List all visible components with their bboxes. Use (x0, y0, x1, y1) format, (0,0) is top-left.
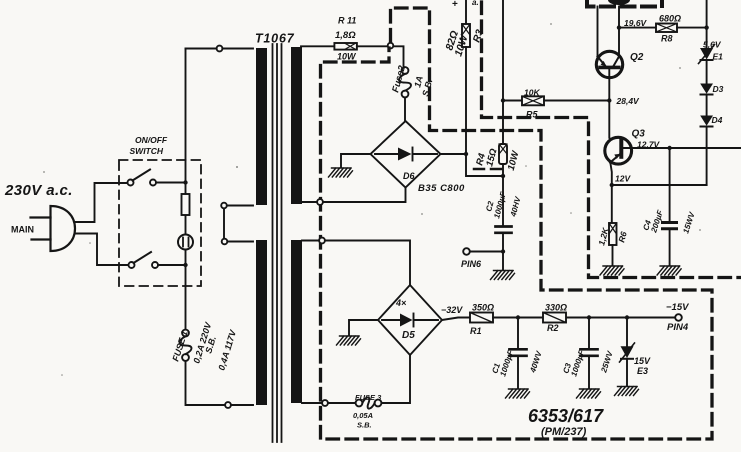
svg-text:R5: R5 (526, 110, 538, 120)
ground (bridge D6) (329, 168, 353, 177)
diode D4 (700, 116, 713, 127)
resistor R6 (609, 223, 617, 245)
svg-text:−15V: −15V (666, 302, 689, 313)
junction R5 tap (501, 98, 505, 102)
ground (R6) (600, 266, 624, 275)
resistor R3 (462, 24, 470, 47)
resistor R4 line top (502, 0, 504, 144)
wire D6 left to ground (341, 154, 371, 167)
transformer T1067 windings (256, 47, 302, 405)
junction R3/bridge (464, 152, 468, 156)
switch pole S1b (129, 252, 159, 268)
PIN4 terminal (675, 314, 682, 321)
wire S1b to lamp line (158, 264, 186, 266)
transistor Q3 (605, 137, 632, 164)
wire R11 to fuse2 (357, 46, 404, 67)
capacitor C3 (581, 318, 598, 389)
resistor R1 (470, 313, 493, 323)
svg-text:E1: E1 (713, 52, 724, 62)
wire Q1 collector / 19.6V line (618, 7, 620, 58)
capacitor C4 (663, 223, 677, 229)
wire S1a to lamp line (156, 182, 186, 184)
svg-text:D4: D4 (712, 115, 723, 125)
wire plug to switch (top) (75, 183, 129, 222)
tap terminal circle lower (222, 239, 228, 245)
wire Q1 emitter down (597, 7, 599, 59)
svg-text:+: + (452, 0, 458, 10)
dashed stub under R4 (474, 168, 502, 171)
wire -15V rail (493, 317, 675, 319)
svg-text:E3: E3 (637, 366, 648, 376)
fuse F3 (356, 397, 382, 408)
svg-text:D6: D6 (403, 171, 415, 181)
dashed boundary module outer (321, 8, 713, 439)
wire Q3 collector 12.7V line (621, 147, 741, 149)
transistor Q1 (cut off) (608, 0, 630, 5)
capacitor C2 (496, 227, 512, 233)
junction chain top (704, 25, 708, 29)
svg-text:12,7V: 12,7V (637, 140, 661, 150)
wire Q2 base down (609, 67, 621, 146)
wire secondary bottom via fuse3 (302, 355, 410, 403)
wire R6 feed (611, 185, 613, 223)
svg-text:6353/617: 6353/617 (528, 406, 604, 426)
capacitor C1 (510, 318, 527, 389)
wire C4 feed (669, 148, 671, 223)
wire plug to switch (bottom) (75, 234, 129, 266)
svg-text:10W: 10W (337, 52, 357, 62)
svg-text:R1: R1 (470, 326, 482, 336)
svg-text:PIN6: PIN6 (461, 259, 482, 269)
svg-text:0,05A: 0,05A (353, 411, 373, 420)
svg-text:T1067: T1067 (255, 32, 295, 46)
mains plug P1 (31, 206, 76, 251)
svg-text:680Ω: 680Ω (659, 14, 681, 24)
dashed box Q1 (587, 0, 662, 7)
terminal circle secondary (D6 return) (317, 199, 323, 205)
zener chain line (706, 0, 708, 185)
junction 19.6V (617, 25, 621, 29)
svg-text:−32V: −32V (441, 305, 463, 315)
diode D3 (700, 84, 713, 95)
resistor R11 (334, 43, 357, 50)
switch pole S1a (128, 170, 157, 186)
wire Q3 emitter down (610, 162, 612, 185)
svg-text:230V a.c.: 230V a.c. (4, 182, 73, 199)
ground (C2) (491, 271, 515, 280)
svg-text:330Ω: 330Ω (545, 303, 567, 313)
transistor Q2 (596, 51, 622, 77)
svg-text:PIN4: PIN4 (667, 322, 689, 333)
wire R6 to ground (612, 245, 614, 265)
svg-text:Q3: Q3 (632, 129, 646, 140)
svg-text:MAIN: MAIN (11, 225, 34, 235)
tap terminal circle upper (221, 203, 227, 209)
wire fuse2 to bridge D6 (404, 97, 406, 121)
fuse F1 (180, 330, 192, 361)
svg-text:10K: 10K (524, 88, 540, 98)
junction 12V node (610, 183, 614, 187)
svg-text:5,6V: 5,6V (703, 40, 722, 50)
ground (C3) (577, 389, 601, 398)
resistor R4 (499, 144, 507, 164)
svg-text:R2: R2 (547, 323, 559, 333)
junction C3 (587, 315, 591, 319)
ground (C1) (506, 389, 530, 398)
resistor R2 (543, 313, 566, 323)
bridge rectifier D5 (378, 285, 442, 355)
PIN6 terminal (463, 248, 470, 255)
resistor R5 (522, 96, 544, 105)
svg-text:S.B.: S.B. (357, 421, 372, 430)
wire R3 down to node (466, 47, 503, 176)
svg-text:D3: D3 (713, 84, 724, 94)
junction C4 tap (667, 146, 671, 150)
wire lamp branch vertical (186, 49, 254, 406)
svg-text:12V: 12V (615, 174, 631, 184)
ground (C4) (657, 266, 681, 275)
resistor R3 line top (465, 0, 467, 24)
svg-text:19,6V: 19,6V (624, 18, 648, 28)
svg-text:FUSE 3: FUSE 3 (355, 393, 382, 402)
wire D5 left to ground (349, 320, 378, 335)
junction 28.4V node (607, 98, 611, 102)
wire R4 to C2 (502, 164, 504, 227)
wire R5 to Q2 base node (544, 100, 609, 102)
wire C2 to ground (502, 233, 504, 270)
ground (E3) (615, 387, 639, 396)
wire to PIN6 (470, 251, 503, 253)
svg-text:SWITCH: SWITCH (130, 146, 164, 156)
dashed box ON/OFF switch (119, 160, 201, 286)
svg-text:4×: 4× (395, 298, 407, 308)
bridge rectifier D6 (371, 121, 441, 188)
junction E3 (625, 315, 629, 319)
svg-text:a.: a. (472, 0, 479, 7)
ground (bridge D5) (337, 336, 361, 345)
junction on switch line top (183, 180, 187, 184)
wire primary top (186, 48, 254, 50)
wire secondary top to R11 (301, 45, 334, 47)
svg-text:R8: R8 (661, 34, 673, 44)
wire D6 right to R3 line (441, 153, 467, 155)
resistor R8 (656, 24, 677, 33)
dashed boundary inner (482, 2, 741, 278)
wire secondary to D5 top (302, 241, 410, 286)
terminal circle on R11 wire (388, 43, 394, 49)
svg-text:350Ω: 350Ω (472, 303, 494, 313)
primary tap strap (224, 206, 253, 242)
wire 12V line (612, 184, 707, 186)
fuse F2 (399, 67, 411, 97)
svg-text:28,4V: 28,4V (616, 96, 641, 106)
wire node to R5 (503, 100, 522, 102)
zener E3 (620, 318, 635, 386)
wire D5 right to R1 (442, 318, 470, 321)
wire to R8 (619, 27, 656, 29)
transformer core (273, 44, 282, 442)
terminal circle primary top (217, 46, 223, 52)
svg-text:B35 C800: B35 C800 (418, 183, 465, 194)
svg-text:ON/OFF: ON/OFF (135, 135, 168, 145)
svg-text:D5: D5 (402, 330, 415, 341)
junction on switch line bottom (183, 263, 187, 267)
junction PIN6 (501, 249, 505, 253)
svg-text:Q2: Q2 (630, 52, 644, 63)
neon lamp (178, 235, 193, 250)
svg-text:15V: 15V (634, 356, 651, 366)
svg-text:1,8Ω: 1,8Ω (335, 30, 356, 41)
svg-text:R 11: R 11 (338, 16, 356, 26)
terminal circle primary bottom (225, 402, 231, 408)
wire D6 bottom to terminal (302, 188, 406, 203)
wire R8 to zener chain (677, 27, 707, 29)
resistor (ballast, unlabeled) (182, 194, 190, 215)
terminal circle secondary (D5 feed) (319, 238, 325, 244)
svg-text:(PM/237): (PM/237) (541, 426, 587, 438)
zener E1 (699, 45, 715, 64)
junction C1 (516, 315, 520, 319)
terminal circle secondary bottom (322, 400, 328, 406)
junction R4 bottom (501, 174, 505, 178)
wire C4 to ground (669, 229, 671, 265)
